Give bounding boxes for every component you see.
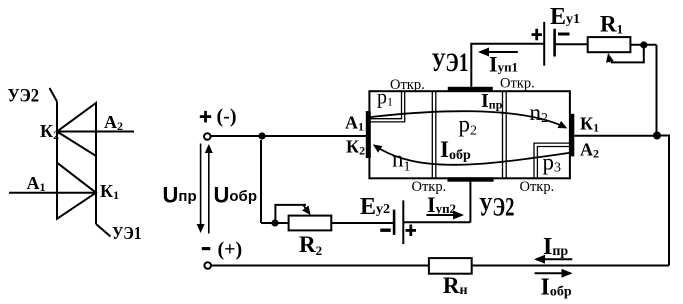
- svg-text:(+): (+): [218, 239, 243, 261]
- svg-text:Откр.: Откр.: [390, 77, 425, 93]
- svg-text:УЭ1: УЭ1: [112, 223, 142, 243]
- svg-text:(-): (-): [217, 106, 237, 128]
- svg-text:УЭ2: УЭ2: [8, 86, 40, 107]
- svg-text:Откр.: Откр.: [520, 179, 555, 195]
- svg-text:УЭ2: УЭ2: [479, 193, 515, 222]
- svg-text:Откр.: Откр.: [412, 179, 447, 195]
- svg-text:УЭ1: УЭ1: [432, 48, 469, 77]
- svg-text:Откр.: Откр.: [500, 76, 535, 92]
